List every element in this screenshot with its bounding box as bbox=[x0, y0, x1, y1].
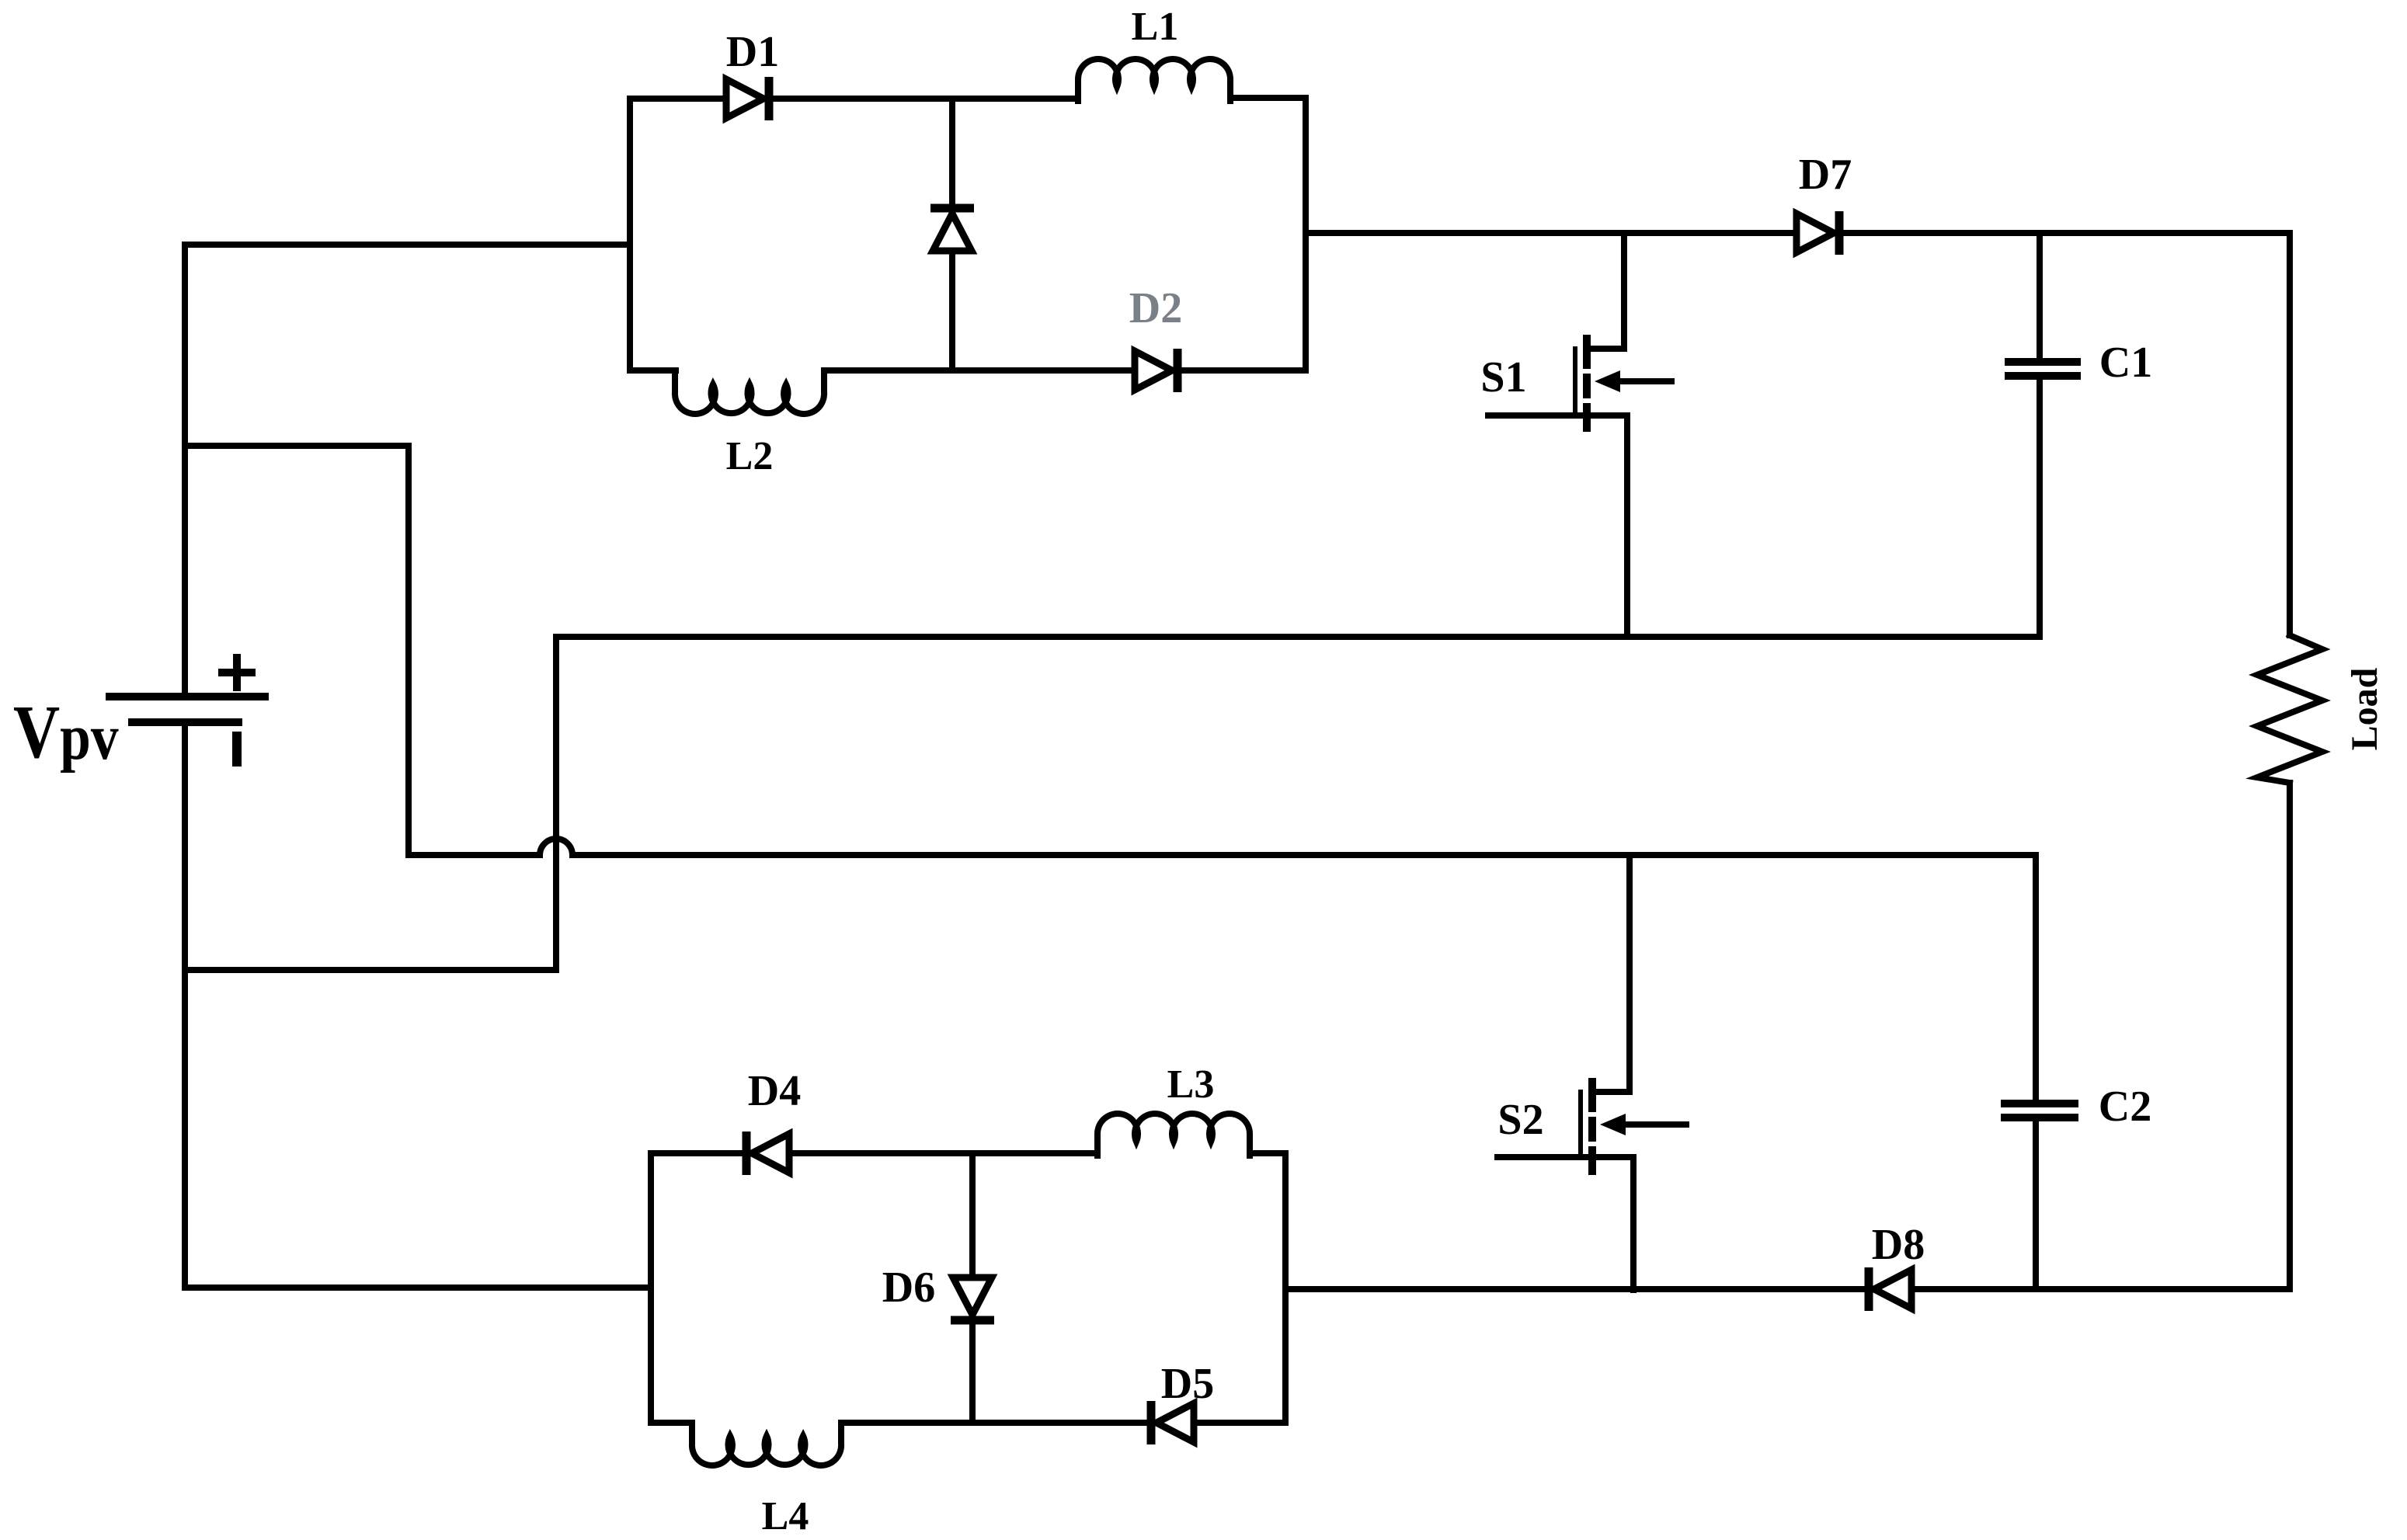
S1 gate/source lead bbox=[1488, 412, 1627, 419]
box1 left edge bbox=[627, 99, 633, 370]
capacitor C1 plates bbox=[2009, 358, 2077, 366]
wire: bottom rail from box2 output to right edge bbox=[1285, 1286, 2290, 1292]
svg-text:D1: D1 bbox=[726, 28, 779, 76]
wire hop over crossing at (716,1101) bbox=[540, 839, 572, 855]
inductor L1 bbox=[1078, 59, 1230, 101]
S1 drain stub bbox=[1588, 346, 1624, 352]
inductor L2 bbox=[675, 370, 824, 414]
box2 top edge (D4 to L3) bbox=[787, 1150, 1097, 1156]
S2 gate/source lead bbox=[1497, 1154, 1633, 1160]
wire: vertical drop of Vpv+ branch bbox=[405, 446, 412, 855]
battery plus sign bbox=[222, 669, 252, 676]
box2 middle vertical wire bbox=[969, 1153, 976, 1423]
svg-text:C1: C1 bbox=[2099, 339, 2152, 387]
svg-text:L3: L3 bbox=[1167, 1062, 1215, 1107]
capacitor C2 plates bbox=[2005, 1100, 2075, 1107]
wire: top input from Vpv+ to box1 left edge bbox=[185, 242, 630, 248]
load right edge vertical (bottom) bbox=[2287, 783, 2293, 1289]
MOSFET S1 bbox=[1488, 335, 1671, 432]
box1 right edge bbox=[1303, 98, 1309, 370]
svg-text:D6: D6 bbox=[882, 1264, 935, 1312]
box2 top edge (left corner to D4) bbox=[651, 1150, 742, 1156]
wire: bottom-cell top rail (right of hop) bbox=[572, 852, 2036, 858]
inductor L3 bbox=[1097, 1114, 1250, 1156]
svg-text:L2: L2 bbox=[726, 434, 774, 478]
diode D1 bbox=[726, 77, 769, 120]
S1 channel bars bbox=[1583, 335, 1591, 369]
S1 gate bar bbox=[1573, 349, 1577, 415]
box2 bottom edge (L4 to D5) bbox=[841, 1420, 1150, 1426]
box2 right edge bbox=[1282, 1153, 1289, 1423]
capacitor C2 vertical leads bbox=[2033, 855, 2039, 1100]
diode D8 bbox=[1869, 1267, 1911, 1311]
wire: vertical from bottom rail down to Vpv- link bbox=[553, 637, 559, 970]
svg-text:Load: Load bbox=[2344, 667, 2385, 750]
svg-text:D5: D5 bbox=[1161, 1360, 1214, 1408]
box2 bottom edge (D5 to right corner) bbox=[1193, 1420, 1285, 1426]
wire: top cell bottom rail (S1 source / C1 bottom) bbox=[556, 634, 2040, 640]
wire: bottom-cell top rail (left of hop) bbox=[409, 852, 540, 858]
box1 top edge segment (left of D1) bbox=[630, 96, 726, 102]
diode D3 (unlabeled, middle of box1, pointing up) bbox=[930, 208, 974, 251]
box1 bottom edge (left corner to L2) bbox=[630, 367, 676, 374]
inductor L4 bbox=[692, 1423, 841, 1465]
wire: S2 drain vertical bbox=[1626, 855, 1633, 1090]
diode D6 (middle of box2, pointing down) bbox=[951, 1278, 994, 1320]
box1 bottom edge (D2 to right corner) bbox=[1179, 367, 1306, 374]
S2 drain stub bbox=[1593, 1089, 1630, 1095]
wire: S2 source vertical bbox=[1630, 1157, 1637, 1290]
svg-text:C2: C2 bbox=[2099, 1083, 2151, 1131]
S1 body arrow bbox=[1617, 378, 1671, 384]
diode D7 bbox=[1797, 211, 1839, 255]
box1 top edge segment (L1 to right corner) bbox=[1233, 95, 1306, 101]
svg-text:D8: D8 bbox=[1872, 1221, 1925, 1269]
box2 bottom edge (left corner to L4) bbox=[651, 1420, 692, 1426]
box1 top edge segment (D1 to L1) bbox=[769, 96, 1075, 102]
S2 channel bars bbox=[1588, 1078, 1596, 1112]
battery Vpv bbox=[110, 658, 265, 762]
box2 left edge bbox=[648, 1153, 654, 1423]
wire: S1 drain vertical bbox=[1621, 233, 1627, 347]
S2 gate bar bbox=[1578, 1092, 1583, 1157]
svg-text:Vpv: Vpv bbox=[13, 690, 119, 774]
battery top plate (+) bbox=[110, 693, 265, 700]
load right edge vertical (top) bbox=[2287, 233, 2293, 635]
wire: Vpv+ branch to bottom cell (upper segment) bbox=[185, 443, 409, 449]
S2 body arrow bbox=[1623, 1121, 1686, 1128]
svg-text:S2: S2 bbox=[1497, 1096, 1543, 1144]
box1 middle vertical wire bbox=[949, 99, 955, 370]
diode D5 bbox=[1151, 1401, 1194, 1444]
load resistor zigzag bbox=[2257, 635, 2322, 783]
wire: horizontal link to Vpv- bbox=[185, 967, 556, 973]
svg-text:L4: L4 bbox=[762, 1494, 809, 1538]
wire: Vpv+ vertical (top section, above battery) bbox=[182, 245, 188, 694]
battery bottom plate (-) bbox=[132, 718, 238, 726]
wire: S1 source vertical bbox=[1624, 415, 1630, 637]
wire: bottom-left input from Vpv- to box2 bbox=[185, 1284, 651, 1291]
svg-text:D2: D2 bbox=[1129, 284, 1182, 332]
wire: box1 output to right edge (top rail) bbox=[1306, 230, 2290, 236]
diode D4 bbox=[746, 1132, 789, 1175]
wire: Vpv- vertical (below battery) bbox=[182, 723, 188, 1288]
svg-text:L1: L1 bbox=[1132, 5, 1179, 49]
MOSFET S2 bbox=[1497, 1078, 1686, 1175]
svg-text:D7: D7 bbox=[1799, 151, 1852, 199]
diode D2 bbox=[1135, 349, 1177, 392]
capacitor C1 vertical leads bbox=[2037, 233, 2043, 358]
box2 top edge (L3 to right corner) bbox=[1250, 1150, 1285, 1156]
svg-text:D4: D4 bbox=[748, 1067, 801, 1115]
box1 bottom edge (L2 to D2) bbox=[824, 367, 1135, 374]
svg-text:S1: S1 bbox=[1480, 353, 1526, 402]
battery minus tick bbox=[232, 736, 242, 762]
